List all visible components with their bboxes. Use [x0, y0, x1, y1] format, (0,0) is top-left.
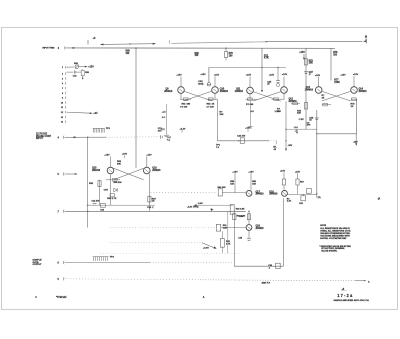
- svg-text:-7: -7: [295, 130, 297, 132]
- transistor Q14: [351, 87, 358, 94]
- node A arrow: [364, 280, 367, 282]
- svg-text:+0.6V: +0.6V: [203, 248, 209, 250]
- resistor R51 emitter Q9: [180, 93, 182, 99]
- resistor R75 emitter Q13: [322, 104, 331, 106]
- wire upper bus segment middle: [168, 40, 171, 43]
- svg-text:6: 6: [62, 83, 63, 85]
- svg-text:+15V: +15V: [200, 74, 206, 76]
- capacitor C32 above output line: [306, 189, 311, 194]
- svg-text:+15V: +15V: [280, 170, 286, 172]
- capacitor C26: [250, 101, 252, 126]
- svg-text:+15V: +15V: [269, 75, 275, 77]
- resistor R63: [247, 214, 250, 220]
- potentiometer R49: [67, 66, 75, 68]
- wire cross coupling Q9 Q10: [184, 91, 212, 101]
- power -15V stub right: [355, 134, 357, 144]
- resistor R68: [135, 47, 136, 48]
- transistor Q15: [107, 167, 114, 174]
- svg-text:C22 470: C22 470: [92, 200, 101, 203]
- svg-text:1K: 1K: [152, 201, 155, 203]
- resistor R74: [304, 103, 307, 109]
- svg-text:R? 680: R? 680: [246, 104, 254, 106]
- wire coupling line to Q17: [151, 192, 217, 194]
- svg-text:+15V: +15V: [315, 75, 321, 77]
- svg-text:3: 3: [62, 78, 63, 80]
- svg-text:-2.4V: -2.4V: [198, 202, 204, 205]
- node -15V stub x276: [275, 141, 277, 144]
- svg-text:4.7K: 4.7K: [226, 243, 231, 246]
- resistor R57: [148, 196, 151, 202]
- resistor R65: [220, 239, 224, 248]
- transistor Q10: [212, 87, 219, 94]
- capacitor C27: [304, 71, 308, 73]
- resistor R62: [230, 205, 234, 215]
- svg-text:1K: 1K: [322, 98, 325, 100]
- svg-text:2N4916: 2N4916: [269, 193, 278, 196]
- wire emitter drop Q16: [148, 174, 150, 212]
- resistor R70: [225, 48, 227, 51]
- wire line E y279: [65, 279, 201, 280]
- svg-text:INPUT TRIM: INPUT TRIM: [42, 47, 54, 49]
- capacitor C22: [93, 203, 97, 205]
- wire node line y133: [317, 133, 357, 135]
- capacitor C28 top of main vertical: [315, 117, 319, 119]
- svg-text:+15V: +15V: [340, 74, 346, 76]
- svg-text:2: 2: [62, 74, 63, 76]
- svg-text:+4.3V: +4.3V: [180, 127, 186, 130]
- svg-text:8: 8: [62, 93, 63, 95]
- svg-text:2N4916: 2N4916: [256, 193, 265, 196]
- capacitor C23 box: [100, 204, 105, 208]
- svg-text:+15V: +15V: [214, 74, 220, 76]
- svg-text:1K: 1K: [351, 106, 354, 108]
- svg-text:2N4916: 2N4916: [256, 227, 265, 230]
- resistor R?b emitter Q12 left: [283, 93, 285, 99]
- svg-text:-7.5V: -7.5V: [299, 119, 305, 121]
- wire node line y129: [286, 128, 317, 130]
- wire emitter drop Q18: [283, 198, 285, 266]
- svg-text:1K: 1K: [212, 104, 215, 106]
- resistor R66: [283, 172, 285, 179]
- transistor Q11: [247, 87, 254, 94]
- svg-text:15K: 15K: [230, 184, 234, 186]
- svg-text:(915): (915): [198, 84, 203, 86]
- svg-text:15MV P-P: 15MV P-P: [262, 282, 271, 284]
- svg-text:+15V: +15V: [295, 171, 301, 173]
- capacitor C30: [276, 263, 281, 268]
- wire line D y262: [65, 262, 151, 264]
- wire node line y205 left: [87, 204, 156, 206]
- wire node line y140: [217, 140, 269, 142]
- wire upper bus segment left: [101, 43, 156, 46]
- note text block: [319, 225, 351, 253]
- wire cross coupling Q13 Q14: [322, 91, 351, 101]
- svg-text:DIGITAL VOLTMETER REF: DIGITAL VOLTMETER REF: [320, 237, 347, 240]
- svg-text:-15V: -15V: [353, 141, 358, 143]
- wire long vertical bus right: [316, 110, 318, 198]
- svg-text:2N4916: 2N4916: [164, 90, 173, 93]
- svg-text:NOTE: NOTE: [320, 225, 326, 227]
- wire bias bus y67: [209, 66, 286, 68]
- svg-text:100K: 100K: [334, 82, 340, 84]
- svg-text:15K: 15K: [277, 111, 281, 113]
- svg-text:+15V: +15V: [282, 74, 288, 76]
- svg-text:(A: (A: [378, 198, 381, 201]
- resistor R52 emitter Q10: [214, 93, 216, 99]
- svg-text:4.7K: 4.7K: [287, 200, 292, 203]
- svg-text:1.C: 1.C: [162, 117, 166, 119]
- svg-text:15K: 15K: [297, 113, 301, 115]
- svg-text:2N4916: 2N4916: [235, 90, 244, 93]
- resistor R76: [330, 48, 332, 80]
- svg-text:R56 2.7K: R56 2.7K: [107, 198, 117, 200]
- svg-text:2N4916: 2N4916: [220, 90, 229, 93]
- svg-text:C24 470: C24 470: [237, 134, 246, 137]
- wire long drop from rail to Q15 stage: [135, 48, 137, 168]
- transistor Q16: [144, 167, 151, 174]
- transistor Q9: [178, 87, 185, 94]
- capacitor C25: [277, 68, 279, 81]
- svg-text:*TVM 9AF: *TVM 9AF: [56, 296, 67, 299]
- transistor Q12: [281, 87, 288, 94]
- wire cross coupling Q11 Q12: [253, 92, 281, 102]
- svg-text:15K: 15K: [252, 184, 256, 186]
- transistor Q18: [282, 191, 288, 197]
- wire drop to CR bias node: [261, 48, 263, 90]
- svg-text:+15V: +15V: [353, 74, 359, 76]
- resistor R78 emitter Q14: [351, 98, 357, 100]
- svg-text:-15V: -15V: [288, 145, 293, 147]
- svg-text:1: 1: [62, 67, 63, 69]
- resistor chain node A1: [165, 104, 167, 135]
- wire Q19 collector: [248, 211, 250, 224]
- diode CR7: [110, 180, 112, 205]
- wire line B y227: [110, 227, 215, 229]
- svg-text:R62 6.8K: R62 6.8K: [236, 208, 245, 210]
- resistor R56: [110, 194, 115, 197]
- wire vertical drop from input: [87, 137, 89, 227]
- resistor R60: [218, 189, 222, 196]
- svg-text:VALUE SHOWN.: VALUE SHOWN.: [321, 250, 337, 253]
- diode CR1: [208, 67, 210, 82]
- resistor R67: [297, 173, 299, 179]
- svg-text:1.8K: 1.8K: [223, 228, 228, 230]
- power symbol at bus end: [365, 37, 367, 41]
- svg-text:15K: 15K: [219, 114, 223, 116]
- capacitor C21: [160, 135, 162, 139]
- wire emitter drop Q10: [216, 99, 218, 141]
- wire cross coupling Q15 Q16: [114, 168, 144, 180]
- power +15V ticks Q17 stage: [232, 170, 300, 173]
- node -2.4 arrow mid: [296, 129, 298, 132]
- svg-text:11: 11: [61, 107, 63, 109]
- capacitor C29: [302, 194, 304, 196]
- svg-text:+15V: +15V: [104, 154, 110, 156]
- svg-text:+15V: +15V: [299, 52, 305, 54]
- svg-text:+15V: +15V: [246, 75, 252, 77]
- wire test point TP: [67, 112, 91, 113]
- svg-text:C? 100: C? 100: [207, 107, 215, 109]
- svg-text:SAMPLE AMPLIFIER ASSY A7A2 / 2: SAMPLE AMPLIFIER ASSY A7A2 / 2A: [334, 299, 370, 302]
- svg-text:R60 10K: R60 10K: [218, 187, 227, 189]
- svg-text:7: 7: [62, 88, 63, 90]
- wire bottom node line y266: [234, 265, 283, 267]
- svg-text:13: 13: [61, 117, 63, 119]
- svg-text:2N4916: 2N4916: [359, 90, 368, 93]
- power +15V ticks row for first bank: [176, 74, 358, 77]
- wire branch chain x227: [227, 211, 229, 253]
- svg-text:9: 9: [62, 98, 63, 100]
- transistor Q17: [246, 191, 252, 197]
- svg-text:+15V: +15V: [88, 67, 94, 69]
- svg-text:10: 10: [61, 102, 63, 104]
- svg-text:R64 3.3K: R64 3.3K: [237, 214, 246, 217]
- svg-text:2N4916: 2N4916: [152, 169, 161, 172]
- wire output line y194: [288, 194, 317, 196]
- resistor R59: [250, 173, 252, 190]
- node +5 tap: [87, 40, 89, 45]
- wire main +15V rail: [66, 47, 336, 49]
- svg-text:15K: 15K: [309, 63, 314, 65]
- svg-text:17-2a: 17-2a: [337, 293, 353, 298]
- svg-text:INPUT: INPUT: [36, 138, 43, 140]
- resistor R72 chain: [305, 48, 307, 129]
- svg-text:12: 12: [61, 112, 63, 114]
- svg-text:OUTPUT: OUTPUT: [33, 264, 43, 266]
- svg-text:C25 .1: C25 .1: [147, 207, 154, 209]
- capacitor C24: [240, 138, 244, 144]
- transistor Q19: [246, 225, 252, 231]
- wire input line: [65, 136, 107, 138]
- resistor R58: [234, 173, 236, 192]
- resistor R54: [110, 174, 112, 180]
- connector J1 pin column: [64, 66, 67, 123]
- shield comb TP3: [93, 256, 109, 258]
- capacitor C23: [164, 134, 169, 136]
- resistor R55: [99, 180, 101, 205]
- svg-text:+15V: +15V: [146, 154, 152, 156]
- svg-text:2N4916: 2N4916: [92, 169, 101, 172]
- capacitor C31b below Q19: [248, 230, 250, 238]
- resistor R53b emitter Q11: [249, 94, 251, 99]
- svg-text:+15V: +15V: [232, 171, 238, 173]
- svg-text:+15V: +15V: [176, 75, 182, 77]
- svg-text:+15V: +15V: [248, 171, 254, 173]
- shield comb TP2: [93, 127, 105, 129]
- resistor R73 emitter Q12: [291, 102, 300, 104]
- transistor Q13: [315, 87, 322, 94]
- resistor R64 chain: [233, 211, 235, 266]
- svg-text:90K: 90K: [117, 164, 121, 166]
- svg-text:-2.4V (TP4): -2.4V (TP4): [187, 206, 199, 209]
- wire node line y205 right: [194, 204, 233, 206]
- svg-text:+4V: +4V: [93, 112, 98, 115]
- wire faint line y253: [100, 252, 240, 254]
- svg-text:CR7: CR7: [104, 190, 109, 192]
- capacitor C31 network: [67, 71, 74, 73]
- svg-text:4.7K: 4.7K: [264, 57, 269, 60]
- wire emitter drop Q14: [356, 99, 358, 134]
- svg-text:C? 100: C? 100: [180, 107, 188, 109]
- wire line C y243: [110, 242, 202, 244]
- wire emitter drop Q12 to -15V: [285, 101, 287, 149]
- wire upper bus segment right: [266, 40, 363, 42]
- svg-text:+15V: +15V: [122, 153, 128, 155]
- resistor R50: [82, 68, 84, 71]
